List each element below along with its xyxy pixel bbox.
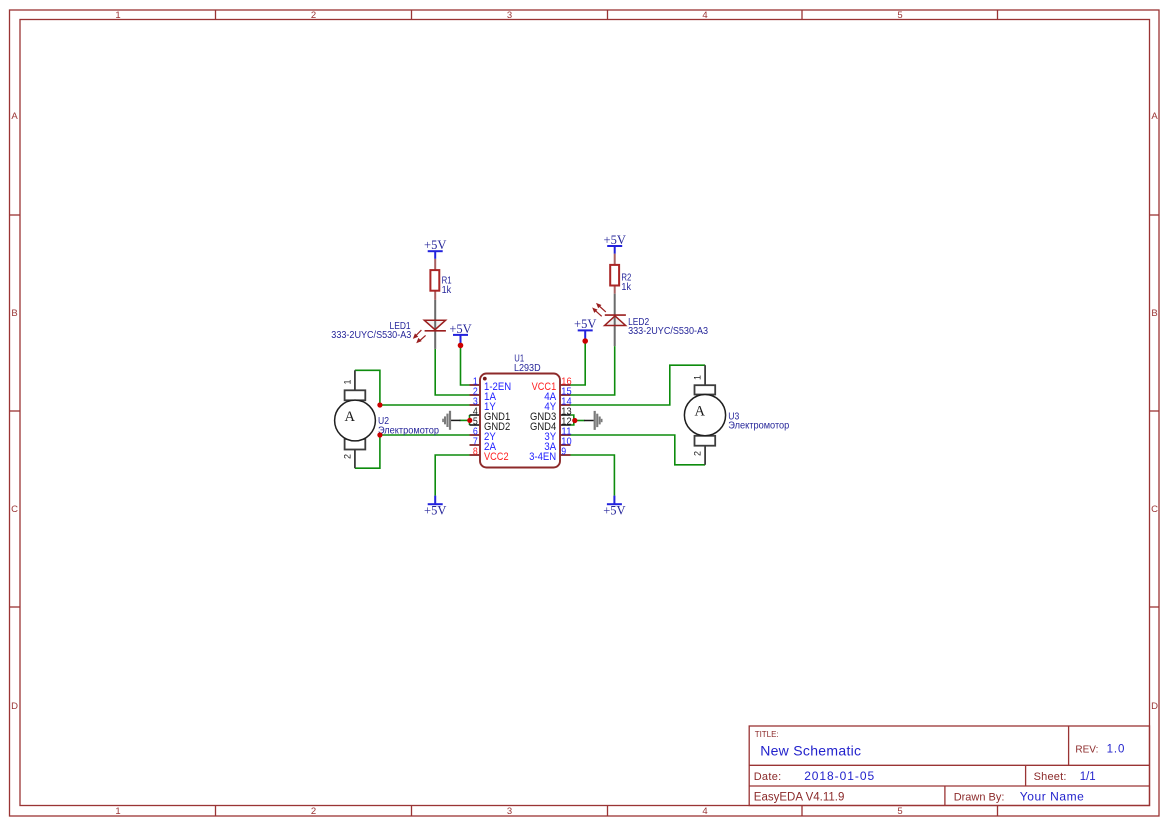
svg-text:+5V: +5V (604, 233, 626, 247)
wire: pin 16 (VCC1) to +5V D (571, 341, 586, 385)
IC U1 pin numbers left (473, 377, 478, 458)
LED1 triangle fill (424, 320, 445, 330)
svg-text:2: 2 (343, 454, 353, 459)
svg-text:5: 5 (897, 10, 902, 21)
motor U3 pin 2 lead (704, 446, 706, 465)
motor U2 pin 1 lead (354, 370, 356, 390)
svg-text:Электромотор: Электромотор (378, 425, 439, 436)
motor U2 body circle (335, 400, 376, 441)
wire: LED1 cathode to pin 2 (1A) (435, 349, 469, 395)
svg-text:3: 3 (507, 10, 512, 21)
svg-text:A: A (11, 111, 18, 122)
ground GND2 right black lead (584, 420, 594, 422)
svg-text:+5V: +5V (603, 503, 625, 517)
svg-text:3: 3 (507, 806, 512, 817)
svg-text:New Schematic: New Schematic (760, 743, 861, 759)
svg-text:2: 2 (693, 451, 703, 456)
LED2 bottom lead (614, 326, 616, 347)
svg-text:Электромотор: Электромотор (728, 421, 789, 432)
IC U1 pin numbers right (561, 377, 572, 458)
motor U3 pin 1 lead (704, 365, 706, 385)
LED2 cathode bar (605, 314, 626, 316)
svg-text:1: 1 (115, 806, 120, 817)
wire: gnd right pins 13-12 tie (571, 415, 574, 425)
netflag +5V F (below pin 9 wire) (603, 496, 625, 518)
IC U1 pin1 indicator dot (483, 377, 487, 381)
svg-text:VCC2: VCC2 (484, 451, 509, 463)
svg-text:4: 4 (702, 10, 707, 21)
svg-text:1: 1 (343, 379, 353, 384)
svg-text:4: 4 (702, 806, 707, 817)
svg-text:B: B (1151, 308, 1157, 319)
wire: gnd left short (460, 419, 470, 421)
svg-text:+5V: +5V (424, 238, 446, 252)
title block (749, 726, 1149, 806)
svg-text:1/1: 1/1 (1080, 771, 1096, 783)
svg-text:333-2UYC/S530-A3: 333-2UYC/S530-A3 (331, 330, 411, 341)
node junction +5V D (582, 338, 588, 344)
wire: pin 14 (4Y) to motor U3 pin1 (571, 365, 706, 405)
svg-text:1: 1 (115, 10, 120, 21)
motor U2 brush blocks (345, 390, 366, 400)
svg-text:D: D (1151, 701, 1158, 712)
motor U3 brush blocks (695, 385, 716, 394)
wire: pin 15 (4A) to LED2 (571, 346, 615, 395)
wire: node dot to pin 3 (1Y) (380, 404, 470, 406)
svg-text:3-4EN: 3-4EN (529, 451, 556, 463)
svg-text:+5V: +5V (424, 503, 446, 517)
svg-text:8: 8 (473, 447, 478, 458)
motor U2 pin 2 lead (354, 450, 356, 469)
resistor R2 body (610, 265, 619, 286)
IC U1 pin stubs (470, 385, 571, 455)
svg-text:+5V: +5V (574, 317, 596, 331)
svg-text:2018-01-05: 2018-01-05 (804, 769, 875, 783)
ground GND1 left symbol (442, 411, 451, 430)
node junction at U2 pin2 / 2Y (377, 432, 382, 437)
svg-text:EasyEDA V4.11.9: EasyEDA V4.11.9 (754, 791, 845, 803)
svg-text:Drawn By:: Drawn By: (954, 791, 1005, 803)
wire: pin 9 (3-4EN) to +5V F (571, 455, 615, 496)
wire: gnd right short (575, 420, 585, 422)
node junction +5V C (458, 343, 464, 349)
svg-text:D: D (11, 701, 18, 712)
resistor R2 top lead (614, 254, 616, 265)
svg-text:A: A (345, 409, 356, 425)
svg-text:1k: 1k (621, 282, 632, 293)
wire: pin 8 (VCC2) to +5V E (435, 455, 469, 496)
svg-text:L293D: L293D (514, 363, 541, 374)
resistor R1 top lead (434, 259, 436, 270)
LED1 cathode bar (425, 330, 446, 332)
svg-text:1k: 1k (442, 285, 453, 296)
netflag +5V D (to pin 16) (574, 317, 596, 339)
netflag +5V E (below pin 8 wire) (424, 496, 446, 518)
svg-text:5: 5 (897, 806, 902, 817)
LED1 emission arrows (414, 330, 426, 342)
title block text (754, 730, 1099, 803)
resistor R1 bottom lead (434, 291, 436, 300)
IC U1 pin names right (529, 381, 557, 463)
svg-text:C: C (1151, 504, 1158, 515)
svg-text:2: 2 (311, 806, 316, 817)
LED2 triangle (605, 316, 626, 326)
svg-text:B: B (11, 308, 17, 319)
node junction gnd right (572, 418, 577, 423)
wire: +5V C to pin 1 (1-2EN) (461, 346, 470, 385)
resistor R2 bottom lead (614, 286, 616, 294)
svg-text:Date:: Date: (754, 771, 782, 783)
wire: motor U2 pin1 loop (355, 370, 380, 405)
svg-text:Sheet:: Sheet: (1034, 771, 1067, 783)
svg-text:9: 9 (561, 447, 566, 458)
node junction gnd left (467, 418, 472, 423)
wire: pin 11 (3Y) to motor U3 pin2 (571, 435, 706, 465)
svg-text:REV:: REV: (1075, 744, 1098, 755)
LED1 triangle (424, 320, 445, 330)
svg-text:A: A (695, 403, 706, 419)
netflag +5V B (above R2) (604, 233, 626, 254)
LED2 emission arrows (593, 304, 606, 316)
ground GND2 right symbol (594, 411, 603, 430)
motor U3 body circle (684, 395, 725, 436)
wire: node dot to pin 6 (2Y) (380, 434, 470, 436)
LED1 bottom lead (434, 331, 436, 349)
svg-text:2: 2 (311, 10, 316, 21)
netflag +5V C (to pin 1) (449, 322, 471, 343)
IC U1 pin names left (484, 381, 511, 463)
resistor R1 body (430, 270, 439, 291)
IC U1 gnd pin stubs (470, 415, 571, 425)
svg-text:+5V: +5V (449, 322, 471, 336)
svg-text:1: 1 (693, 375, 703, 380)
LED1 top lead (434, 300, 436, 330)
wire: gnd left pins 4-5 tie (469, 415, 471, 425)
svg-text:TITLE:: TITLE: (755, 730, 779, 739)
wire: motor U2 pin2 loop (355, 435, 380, 468)
svg-text:1.0: 1.0 (1107, 743, 1126, 755)
node junction at U2 pin1 / 1Y (377, 402, 382, 407)
svg-text:Your Name: Your Name (1020, 789, 1085, 803)
LED2 top lead (614, 294, 616, 326)
svg-text:333-2UYC/S530-A3: 333-2UYC/S530-A3 (628, 326, 708, 337)
svg-text:C: C (11, 504, 18, 515)
netflag +5V A (above R1) (424, 238, 446, 259)
svg-text:A: A (1151, 111, 1158, 122)
IC U1 body (480, 374, 560, 468)
LED2 triangle fill (605, 316, 626, 326)
ground GND1 left black lead (451, 419, 461, 421)
